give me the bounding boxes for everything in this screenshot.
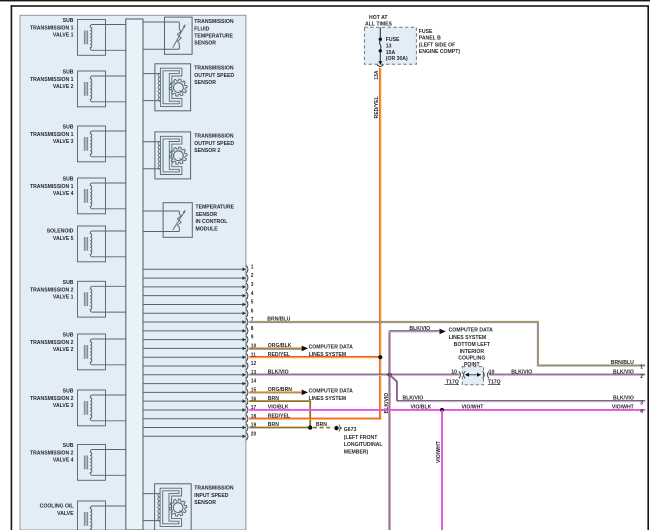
svg-text:SUB: SUB: [63, 443, 74, 449]
svg-text:OUTPUT SPEED: OUTPUT SPEED: [194, 73, 234, 79]
svg-text:BLK/VIO: BLK/VIO: [403, 395, 424, 401]
label: SUB TRANSMISSION 1 VALVE 2: [30, 69, 74, 90]
svg-text:BRN: BRN: [316, 422, 327, 428]
label: transmission input speed sensor: [194, 485, 233, 506]
svg-text:5: 5: [251, 299, 254, 305]
pin 6 wire and connector: [143, 308, 254, 317]
svg-text:VIO/BLK: VIO/BLK: [411, 404, 432, 410]
svg-text:COMPUTER DATA: COMPUTER DATA: [449, 327, 493, 333]
svg-text:HOT AT: HOT AT: [369, 15, 388, 21]
arrow to computer data lines system (pins 10/11): [302, 346, 308, 352]
svg-text:1: 1: [640, 364, 643, 370]
wire RED/YEL vertical from fuse: [380, 68, 381, 420]
svg-text:TRANSMISSION: TRANSMISSION: [194, 19, 233, 25]
pin 16 wire and connector: [143, 396, 256, 405]
label: SOLENOID VALVE 5: [47, 228, 74, 242]
arrow to computer data lines system (BLK/VIO): [440, 329, 446, 335]
svg-text:VIO/WHT: VIO/WHT: [462, 404, 484, 410]
svg-text:4: 4: [251, 291, 254, 297]
svg-text:G673: G673: [344, 427, 357, 433]
svg-text:VIO/BLK: VIO/BLK: [268, 404, 289, 410]
pin 5 wire and connector: [143, 299, 254, 308]
label: FUSE PANEL B (LEFT SIDE OF ENGINE COMPT): [419, 29, 460, 56]
svg-text:TRANSMISSION 1: TRANSMISSION 1: [30, 184, 74, 190]
svg-text:ENGINE COMPT): ENGINE COMPT): [419, 49, 460, 55]
svg-text:8: 8: [251, 326, 254, 332]
svg-text:VALVE 1: VALVE 1: [53, 32, 74, 38]
svg-text:1: 1: [251, 264, 254, 270]
svg-text:VALVE 2: VALVE 2: [53, 84, 74, 90]
svg-text:ORG/BRN: ORG/BRN: [268, 387, 292, 393]
wire pin 10 ORG/BLK: [249, 348, 302, 349]
svg-text:ORG/BLK: ORG/BLK: [268, 343, 292, 349]
label: SUB TRANSMISSION 2 VALVE 1: [30, 280, 74, 301]
top edge rule: [0, 0, 650, 1]
pin 8 wire and connector: [143, 326, 254, 335]
svg-text:TRANSMISSION 2: TRANSMISSION 2: [30, 396, 74, 402]
label: G673 (LEFT FRONT LONGITUDINAL MEMBER): [344, 427, 383, 456]
svg-text:VIO/WHT: VIO/WHT: [612, 404, 634, 410]
svg-text:INTERIOR: INTERIOR: [460, 349, 484, 355]
svg-text:VALVE 2: VALVE 2: [53, 347, 74, 353]
label: transmission fluid temperature sensor: [194, 19, 233, 47]
pin 15 wire and connector: [143, 387, 256, 396]
svg-text:SUB: SUB: [63, 280, 74, 286]
svg-text:TEMPERATURE: TEMPERATURE: [194, 33, 233, 39]
wire BLK/VIO vertical trunk: [389, 331, 390, 530]
svg-text:(LEFT FRONT: (LEFT FRONT: [344, 435, 378, 441]
svg-text:INPUT SPEED: INPUT SPEED: [194, 493, 228, 499]
svg-text:(LEFT SIDE OF: (LEFT SIDE OF: [419, 42, 456, 48]
wire BRN dashed to ground: [313, 427, 333, 429]
svg-text:OUTPUT SPEED: OUTPUT SPEED: [194, 141, 234, 147]
svg-text:PANEL B: PANEL B: [419, 35, 441, 41]
svg-text:SENSOR: SENSOR: [196, 212, 218, 218]
transmission output speed sensor: [143, 64, 191, 111]
svg-text:FLUID: FLUID: [194, 26, 209, 32]
svg-text:SUB: SUB: [63, 176, 74, 182]
svg-text:(OR 30A): (OR 30A): [386, 56, 408, 62]
pin 1 wire and connector: [143, 264, 254, 273]
pin 11 wire and connector: [143, 352, 256, 361]
wire pin 7 BRN/BLU to right edge row 1: [249, 321, 645, 366]
wire BLK/VIO branch to computer data: [389, 331, 439, 332]
svg-text:2: 2: [640, 374, 643, 380]
label: transmission output speed sensor: [194, 65, 234, 86]
svg-text:SENSOR: SENSOR: [194, 40, 216, 46]
svg-text:TRANSMISSION 1: TRANSMISSION 1: [30, 132, 74, 138]
fuse 13 15A symbol: [377, 27, 383, 66]
pin 2 wire and connector: [143, 273, 254, 282]
svg-text:2: 2: [251, 273, 254, 279]
junction pin13/BLK-VIO vertical: [388, 373, 392, 377]
svg-text:RED/YEL: RED/YEL: [268, 352, 291, 358]
coupling point connector symbols: [459, 371, 489, 378]
svg-text:SUB: SUB: [63, 388, 74, 394]
label: SUB TRANSMISSION 2 VALVE 2: [30, 332, 74, 353]
svg-text:RED/YEL: RED/YEL: [268, 413, 291, 419]
label: transmission output speed sensor 2: [194, 133, 234, 154]
internal bus bar: [126, 19, 143, 530]
pin 3 wire and connector: [143, 282, 254, 291]
svg-text:LINES SYSTEM: LINES SYSTEM: [449, 335, 487, 341]
fuse panel dashed box: [364, 27, 416, 64]
solenoid valve: SUB TRANSMISSION 1 VALVE 1: [78, 20, 126, 56]
label: HOT AT ALL TIMES: [365, 15, 392, 28]
svg-text:VALVE 3: VALVE 3: [53, 139, 74, 145]
transmission input speed sensor: [143, 484, 191, 530]
svg-text:SENSOR 2: SENSOR 2: [194, 148, 220, 154]
svg-text:6: 6: [251, 308, 254, 314]
svg-text:3: 3: [251, 282, 254, 288]
svg-text:TRANSMISSION 2: TRANSMISSION 2: [30, 340, 74, 346]
svg-text:TRANSMISSION: TRANSMISSION: [194, 485, 233, 491]
pin 4 wire and connector: [143, 291, 254, 300]
svg-text:SUB: SUB: [63, 69, 74, 75]
svg-text:RED/YEL: RED/YEL: [374, 96, 380, 119]
svg-text:VALVE 1: VALVE 1: [53, 294, 74, 300]
svg-text:SUB: SUB: [63, 124, 74, 130]
svg-text:IN CONTROL: IN CONTROL: [196, 219, 228, 225]
pin 12 wire and connector: [143, 361, 256, 370]
pin 13 wire and connector: [143, 370, 256, 379]
solenoid valve: SUB TRANSMISSION 1 VALVE 4: [78, 178, 126, 214]
solenoid valve: SUB TRANSMISSION 2 VALVE 4: [78, 445, 126, 481]
svg-text:BRN: BRN: [268, 422, 279, 428]
svg-text:FUSE: FUSE: [419, 29, 433, 35]
solenoid valve: SUB TRANSMISSION 1 VALVE 3: [78, 126, 126, 162]
svg-text:BLK/VIO: BLK/VIO: [613, 369, 634, 375]
wire BLK/VIO row 3: [398, 401, 646, 402]
pin 17 wire and connector: [143, 405, 256, 414]
svg-text:TRANSMISSION 2: TRANSMISSION 2: [30, 450, 74, 456]
svg-text:14: 14: [251, 378, 256, 384]
solenoid valve: COOLING OIL VALVE: [78, 501, 126, 530]
solenoid valve: SUB TRANSMISSION 1 VALVE 2: [78, 71, 126, 107]
svg-text:BLK/VIO: BLK/VIO: [613, 395, 634, 401]
wire pin 15 ORG/BRN: [249, 392, 302, 393]
svg-text:SUB: SUB: [63, 332, 74, 338]
svg-text:VALVE 4: VALVE 4: [53, 457, 74, 463]
label: SUB TRANSMISSION 1 VALVE 4: [30, 176, 74, 197]
wire pin 13 BLK/VIO (left of coupling): [249, 374, 459, 375]
junction BRN pins 16/19: [308, 425, 312, 429]
ground G673: [334, 425, 342, 432]
svg-text:BOTTOM LEFT: BOTTOM LEFT: [454, 342, 491, 348]
wire pin 18 RED/YEL: [249, 418, 381, 419]
svg-text:9: 9: [251, 334, 254, 340]
svg-text:BRN/BLU: BRN/BLU: [611, 360, 634, 366]
svg-text:BRN: BRN: [268, 395, 279, 401]
pin 19 wire and connector: [143, 422, 256, 431]
pin 18 wire and connector: [143, 414, 256, 423]
transmission output speed sensor 2: [143, 132, 191, 179]
svg-text:SOLENOID: SOLENOID: [47, 228, 74, 234]
pin 7 wire and connector: [143, 317, 254, 326]
label: BOTTOM LEFT INTERIOR COUPLING POINT: [454, 342, 491, 368]
svg-text:BLK/VIO: BLK/VIO: [409, 326, 430, 332]
label: COMPUTER DATA LINES SYSTEM (2): [309, 388, 353, 402]
label: FUSE 13 15A (OR 30A): [386, 37, 408, 62]
svg-text:13A: 13A: [374, 70, 380, 79]
transmission fluid temperature sensor: [143, 17, 192, 54]
pin 10 wire and connector: [143, 343, 256, 352]
wire BLK/VIO row 2 right of coupling: [489, 374, 646, 375]
label: SUB TRANSMISSION 1 VALVE 1: [30, 18, 74, 39]
svg-text:TRANSMISSION 2: TRANSMISSION 2: [30, 287, 74, 293]
wire VIO/WHT vertical: [441, 410, 443, 530]
solenoid valve: SUB TRANSMISSION 2 VALVE 1: [78, 281, 126, 317]
solenoid valve: SUB TRANSMISSION 2 VALVE 3: [78, 390, 126, 426]
svg-text:BRN/BLU: BRN/BLU: [267, 316, 290, 322]
label: SUB TRANSMISSION 1 VALVE 3: [30, 124, 74, 145]
wire pin 16 BRN: [249, 401, 310, 427]
arrow to computer data lines system (pins 15/16): [302, 390, 308, 396]
svg-text:VALVE 3: VALVE 3: [53, 403, 74, 409]
pin 9 wire and connector: [143, 334, 254, 343]
label: COMPUTER DATA LINES SYSTEM (3): [449, 327, 493, 341]
svg-text:TRANSMISSION 1: TRANSMISSION 1: [30, 25, 74, 31]
svg-text:TRANSMISSION: TRANSMISSION: [194, 133, 233, 139]
solenoid valve: SOLENOID VALVE 5: [78, 226, 126, 262]
svg-text:20: 20: [251, 431, 256, 437]
label: SUB TRANSMISSION 2 VALVE 3: [30, 388, 74, 409]
svg-text:LONGITUDINAL: LONGITUDINAL: [344, 442, 383, 448]
svg-text:3: 3: [640, 400, 643, 406]
wire pin 11 RED/YEL: [249, 357, 381, 358]
label: T17Q right: [488, 379, 501, 385]
svg-text:COMPUTER DATA: COMPUTER DATA: [309, 388, 353, 394]
svg-text:SENSOR: SENSOR: [194, 500, 216, 506]
svg-text:10: 10: [451, 369, 457, 375]
transmission control module box: [20, 15, 246, 530]
wire pin 19 BRN: [249, 427, 310, 429]
svg-text:MODULE: MODULE: [196, 226, 218, 232]
junction VIO wire: [440, 408, 444, 412]
svg-text:4: 4: [640, 409, 643, 415]
svg-text:VALVE: VALVE: [57, 511, 74, 517]
label: T17Q left: [444, 379, 459, 385]
label: SUB TRANSMISSION 2 VALVE 4: [30, 443, 74, 464]
svg-text:TRANSMISSION 1: TRANSMISSION 1: [30, 77, 74, 83]
wire BLK/VIO diagonal to row 3: [390, 375, 398, 401]
solenoid valve: SUB TRANSMISSION 2 VALVE 2: [78, 334, 126, 370]
junction pin11/RED-YEL vertical: [378, 355, 382, 359]
svg-text:VALVE 5: VALVE 5: [53, 236, 74, 242]
pin 20 wire and connector: [143, 431, 256, 440]
svg-text:SUB: SUB: [63, 18, 74, 24]
coupling point T17Q dashed box: [462, 367, 483, 385]
svg-text:BLK/VIO: BLK/VIO: [511, 369, 532, 375]
svg-text:VALVE 4: VALVE 4: [53, 191, 74, 197]
svg-text:BLK/VIO: BLK/VIO: [268, 369, 289, 375]
svg-text:SENSOR: SENSOR: [194, 80, 216, 86]
svg-text:COOLING OIL: COOLING OIL: [40, 503, 74, 509]
svg-text:TRANSMISSION: TRANSMISSION: [194, 65, 233, 71]
svg-text:LINES SYSTEM: LINES SYSTEM: [309, 395, 347, 401]
wire pin 17 VIO/BLK to VIO/WHT row 4: [249, 409, 645, 411]
svg-text:12: 12: [251, 361, 256, 367]
temperature sensor in control module: [143, 203, 192, 238]
label: COOLING OIL VALVE: [40, 503, 74, 517]
svg-text:ALL TIMES: ALL TIMES: [365, 21, 392, 27]
label: COMPUTER DATA LINES SYSTEM (1): [309, 344, 353, 358]
svg-text:MEMBER): MEMBER): [344, 449, 369, 455]
label: temperature sensor in control module: [196, 204, 235, 232]
svg-text:COMPUTER DATA: COMPUTER DATA: [309, 344, 353, 350]
pin 14 wire and connector: [143, 378, 256, 387]
svg-text:VIO/WHT: VIO/WHT: [436, 441, 442, 463]
svg-text:TEMPERATURE: TEMPERATURE: [196, 204, 235, 210]
